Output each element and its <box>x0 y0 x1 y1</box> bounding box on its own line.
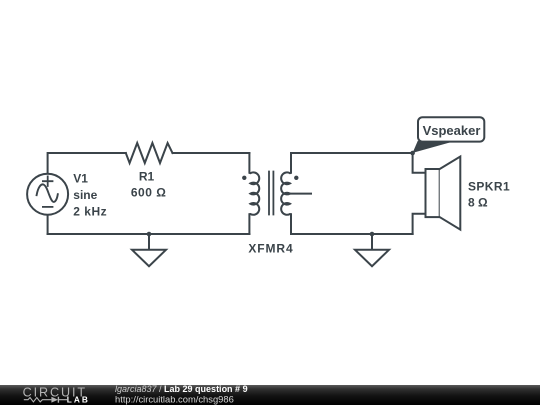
footer logo resistor-diode line <box>24 398 67 402</box>
wire resistor to transformer primary <box>173 152 250 154</box>
svg-text:2 kHz: 2 kHz <box>73 205 107 219</box>
svg-text:XFMR4: XFMR4 <box>248 242 293 256</box>
speaker SPKR1 body <box>426 169 440 217</box>
wire to speaker top terminal <box>413 153 426 173</box>
voltage source V1 minus sign <box>43 206 53 208</box>
footer logo diode bar <box>57 397 59 403</box>
voltage source V1 circle <box>27 174 68 215</box>
wire source bottom <box>47 215 49 234</box>
speaker SPKR1 cone <box>440 157 461 230</box>
ground symbol G1 triangle <box>132 250 166 266</box>
Vspeaker flag box <box>418 117 484 141</box>
voltage source V1 plus sign <box>43 176 53 186</box>
transformer primary phase dot <box>242 176 246 180</box>
svg-text:8 Ω: 8 Ω <box>468 196 488 210</box>
wire secondary bottom rail <box>291 233 413 235</box>
svg-text:SPKR1: SPKR1 <box>468 180 510 194</box>
ground symbol G1 stub <box>148 234 150 250</box>
svg-text:lgarcia837 / Lab 29 question #: lgarcia837 / Lab 29 question # 9 <box>115 384 248 394</box>
transformer core <box>269 172 273 215</box>
transformer secondary phase dot <box>294 176 298 180</box>
transformer secondary winding <box>281 153 291 234</box>
wire to speaker bottom terminal <box>413 214 426 234</box>
svg-text:R1: R1 <box>139 170 155 184</box>
Vspeaker flag pointer <box>413 141 452 153</box>
svg-text:Vspeaker: Vspeaker <box>423 123 481 138</box>
junction node dot at ground G2 <box>370 232 375 237</box>
wire bottom-left rail <box>48 233 250 235</box>
wire source top to resistor <box>48 153 126 174</box>
junction node dot at Vspeaker <box>410 151 415 156</box>
svg-text:sine: sine <box>73 188 97 202</box>
svg-text:600 Ω: 600 Ω <box>131 186 166 200</box>
footer bar <box>0 385 540 405</box>
svg-text:V1: V1 <box>73 172 88 186</box>
ground symbol G2 triangle <box>355 250 389 266</box>
svg-text:LAB: LAB <box>67 394 90 404</box>
junction node dot at ground G1 <box>147 232 152 237</box>
transformer secondary center tap stub <box>291 193 311 195</box>
wire secondary top rail <box>291 152 413 154</box>
resistor R1 <box>126 143 173 163</box>
voltage source V1 sine wave <box>37 184 58 202</box>
transformer XFMR4 primary winding <box>249 153 259 234</box>
footer logo diode triangle <box>51 397 58 403</box>
ground symbol G2 stub <box>371 234 373 250</box>
svg-text:http://circuitlab.com/chsg986: http://circuitlab.com/chsg986 <box>115 394 234 405</box>
